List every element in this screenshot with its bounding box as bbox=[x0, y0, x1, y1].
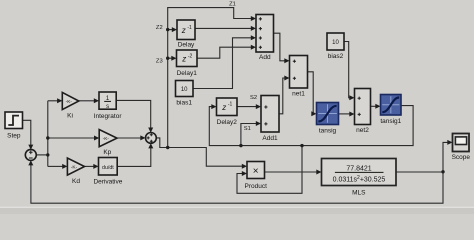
wire to Kp bbox=[48, 137, 95, 139]
wire Integrator to Sum2 top bbox=[116, 100, 151, 128]
block Step bbox=[5, 112, 23, 129]
arrow into Add input 3 bbox=[251, 35, 256, 40]
arrow into Ki bbox=[57, 98, 62, 103]
svg-text:-1: -1 bbox=[187, 25, 192, 31]
sum junction Sum2 bbox=[146, 133, 157, 144]
arrow into Sum1 top bbox=[28, 145, 33, 150]
wire tansig1 output feedback to Delay2 input bbox=[209, 106, 413, 146]
wire Sum2 output to Product input 1 bbox=[156, 138, 242, 166]
svg-text:Kd: Kd bbox=[72, 178, 80, 185]
arrow into Delay2 bbox=[211, 104, 216, 109]
junction dot MLS output bbox=[441, 170, 444, 173]
wire to Kd bbox=[48, 165, 63, 167]
block Delay z-1 bbox=[177, 20, 195, 40]
arrow into Kp bbox=[94, 136, 99, 141]
svg-text:Add1: Add1 bbox=[262, 135, 278, 142]
wire to Ki bbox=[48, 100, 58, 102]
wire tansig output to net2 input 2 bbox=[339, 113, 350, 115]
wire product loop to Product input 2 bbox=[237, 146, 302, 194]
svg-text:S2: S2 bbox=[250, 95, 257, 101]
svg-text:Z3: Z3 bbox=[156, 58, 163, 64]
bottom window edge strip bbox=[0, 208, 474, 214]
block net2 bbox=[355, 89, 371, 125]
wire Delay1 output to Add input 4 bbox=[197, 47, 251, 58]
svg-text:Product: Product bbox=[244, 183, 267, 190]
wire S1 riser to Add1 input 2 bbox=[241, 124, 256, 146]
wire tap Z2 into Delay bbox=[168, 29, 173, 31]
wire MLS output bbox=[396, 171, 443, 173]
svg-text:-1: -1 bbox=[228, 102, 233, 108]
block Delay1 z-2 bbox=[177, 50, 198, 67]
arrow into Add input 4 bbox=[251, 45, 256, 50]
junction dot riser at bus bbox=[166, 146, 169, 149]
svg-text:-2: -2 bbox=[188, 53, 193, 59]
svg-text:10: 10 bbox=[332, 40, 339, 46]
svg-text:z: z bbox=[181, 26, 186, 35]
svg-text:Kp: Kp bbox=[103, 149, 111, 156]
junction dot Z2 tap bbox=[166, 28, 169, 31]
gain Kp bbox=[99, 130, 117, 147]
wire Add output to net1 input 1 bbox=[274, 33, 285, 61]
arrow into net1 input 2 bbox=[284, 76, 289, 81]
wire Product output to MLS bbox=[265, 171, 317, 173]
block Scope bbox=[453, 134, 470, 152]
junction dot Sum1 output branch bbox=[46, 153, 49, 156]
wire riser to Z1 and Add input 1 bbox=[168, 8, 252, 148]
svg-text:bias1: bias1 bbox=[176, 99, 192, 106]
arrow into Sum2 top bbox=[148, 128, 153, 133]
wire Add1 output to net1 input 2 bbox=[279, 78, 285, 114]
wire Sum1 output bbox=[36, 154, 48, 156]
block Product bbox=[247, 162, 265, 179]
svg-text:Delay2: Delay2 bbox=[217, 119, 238, 126]
svg-text:net1: net1 bbox=[292, 90, 305, 97]
svg-text:×: × bbox=[253, 166, 259, 177]
wire tap Z3 into Delay1 bbox=[168, 57, 172, 59]
svg-text:Scope: Scope bbox=[452, 154, 471, 161]
arrow into Add input 1 bbox=[251, 16, 256, 21]
wire Step to Sum1 bbox=[23, 120, 31, 145]
svg-text:MLS: MLS bbox=[352, 189, 366, 196]
svg-text:Delay1: Delay1 bbox=[177, 70, 198, 77]
svg-text:bias2: bias2 bbox=[328, 53, 344, 60]
gain Ki bbox=[62, 92, 79, 109]
arrow into Product input 2 bbox=[242, 171, 247, 176]
arrow into net1 input 1 bbox=[284, 58, 289, 63]
wire Derivative to Sum2 bottom bbox=[117, 148, 151, 166]
block bias1 constant 10 bbox=[176, 81, 194, 97]
svg-text:tansig1: tansig1 bbox=[380, 118, 401, 125]
block Delay2 z-1 bbox=[217, 98, 238, 116]
wire Delay output to Add input 2 bbox=[195, 27, 251, 29]
wire bias1 output to Add input 3 bbox=[193, 38, 251, 89]
arrow into Sum2 left bbox=[140, 135, 145, 140]
svg-text:Delay: Delay bbox=[178, 42, 195, 49]
svg-text:Ki: Ki bbox=[67, 113, 73, 120]
svg-text:Derivative: Derivative bbox=[93, 178, 122, 185]
arrow into Sum1 bottom bbox=[28, 160, 33, 165]
junction dot Z3 tap bbox=[166, 57, 169, 60]
block tansig bbox=[317, 103, 339, 125]
svg-text:Z1: Z1 bbox=[229, 2, 236, 8]
arrow into Product input 1 bbox=[242, 164, 247, 169]
arrow into Sum2 bottom bbox=[148, 143, 153, 148]
wire net2 output to tansig1 bbox=[371, 105, 376, 107]
svg-text:z: z bbox=[181, 55, 186, 64]
arrow into Delay bbox=[172, 27, 177, 32]
wire net1 output to tansig bbox=[308, 72, 314, 114]
arrow into net2 input 2 bbox=[349, 112, 354, 117]
svg-text:-K-: -K- bbox=[71, 165, 78, 171]
svg-text:net2: net2 bbox=[356, 127, 369, 134]
block tansig1 bbox=[381, 95, 402, 116]
block Add bbox=[256, 15, 274, 53]
svg-text:Integrator: Integrator bbox=[94, 113, 123, 120]
sum junction Sum1 bbox=[25, 149, 36, 160]
junction dot Kp branch bbox=[46, 136, 49, 139]
arrow into Add input 2 bbox=[251, 26, 256, 31]
block net1 bbox=[290, 56, 308, 89]
arrow into tansig1 bbox=[375, 104, 380, 109]
svg-text:Step: Step bbox=[7, 133, 21, 140]
arrow into Integrator bbox=[94, 98, 99, 103]
svg-text:z: z bbox=[221, 103, 226, 112]
svg-text:77.8421: 77.8421 bbox=[346, 165, 371, 172]
block bias2 constant 10 bbox=[327, 33, 344, 50]
arrow into Delay1 bbox=[171, 56, 176, 61]
block Derivative bbox=[99, 158, 118, 176]
block MLS transfer function bbox=[322, 159, 397, 186]
wire feedback bottom to Sum1 bbox=[31, 165, 443, 203]
svg-text:10: 10 bbox=[181, 87, 188, 93]
arrow into Add1 input 1 bbox=[256, 104, 261, 109]
svg-text:tansig: tansig bbox=[319, 127, 337, 134]
arrow into Scope bbox=[447, 140, 452, 145]
block Add1 bbox=[261, 96, 279, 133]
svg-text:-K-: -K- bbox=[66, 99, 73, 105]
svg-text:s: s bbox=[106, 104, 109, 110]
block Integrator bbox=[99, 92, 116, 110]
arrow into Kd bbox=[62, 164, 67, 169]
wire bias2 output to net2 input 1 bbox=[344, 42, 350, 98]
svg-text:-K-: -K- bbox=[103, 136, 110, 142]
arrow into net2 input 1 bbox=[349, 95, 354, 100]
junction dot product loop tap bbox=[300, 144, 303, 147]
wire Kd to Derivative bbox=[85, 165, 94, 167]
svg-text:0.0311s2+30.525: 0.0311s2+30.525 bbox=[333, 175, 386, 183]
svg-text:Z2: Z2 bbox=[156, 25, 163, 31]
wire Ki to Integrator bbox=[79, 100, 94, 102]
wire Kp to Sum2 bbox=[117, 137, 141, 139]
arrow into MLS bbox=[316, 170, 321, 175]
arrow into tansig bbox=[311, 111, 316, 116]
wire junction up to Scope bbox=[443, 142, 448, 171]
arrow into Derivative bbox=[93, 164, 98, 169]
junction dot S1 tap bbox=[239, 144, 242, 147]
svg-text:S1: S1 bbox=[244, 126, 251, 132]
gain Kd bbox=[67, 158, 84, 175]
wire Delay2 output to Add1 input 1 bbox=[237, 106, 256, 108]
wire branch vertical bbox=[47, 101, 49, 167]
svg-text:du/dt: du/dt bbox=[102, 165, 114, 171]
arrow into Add1 input 2 bbox=[256, 121, 261, 126]
svg-text:Add: Add bbox=[259, 54, 271, 61]
